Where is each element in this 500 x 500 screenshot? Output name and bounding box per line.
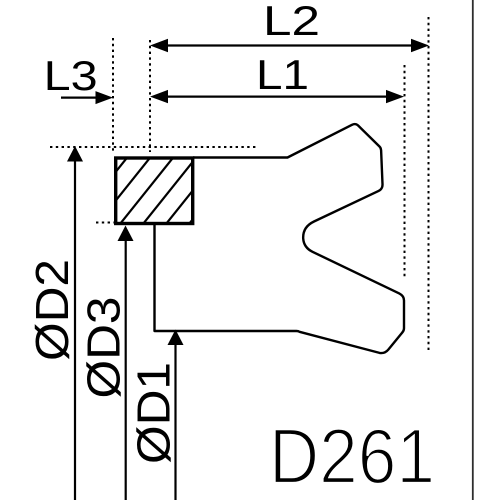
- seal profile outline: [155, 124, 405, 353]
- dimension line L2: [150, 39, 429, 52]
- svg-text:ØD2: ØD2: [26, 259, 78, 361]
- extension dotted vertical L2 right (x=428.5): [428, 17, 430, 353]
- svg-text:ØD1: ØD1: [127, 362, 179, 464]
- extension dotted vertical L3 left (x=113): [112, 38, 114, 151]
- svg-text:L1: L1: [256, 51, 309, 98]
- hatched cross-section square: [71, 156, 244, 228]
- extension dotted vertical L1 right (x=404.5): [404, 65, 406, 278]
- svg-text:D261: D261: [269, 412, 435, 500]
- dimension line L3: [61, 91, 113, 104]
- centerline dotted horizontal OD2 level: [50, 146, 258, 148]
- dimension line OD1: [168, 330, 184, 500]
- svg-text:L2: L2: [263, 0, 320, 44]
- dimension line OD3: [118, 226, 134, 500]
- dimension line OD2: [67, 146, 83, 500]
- extension dotted vertical L1/L2 left (x=150): [149, 40, 151, 152]
- svg-text:L3: L3: [44, 52, 98, 99]
- right page border line: [472, 0, 474, 500]
- cross-section square border: [116, 158, 193, 224]
- dimension line L1: [150, 90, 404, 103]
- svg-text:ØD3: ØD3: [78, 297, 130, 399]
- centerline dotted short OD3 level: [96, 222, 115, 224]
